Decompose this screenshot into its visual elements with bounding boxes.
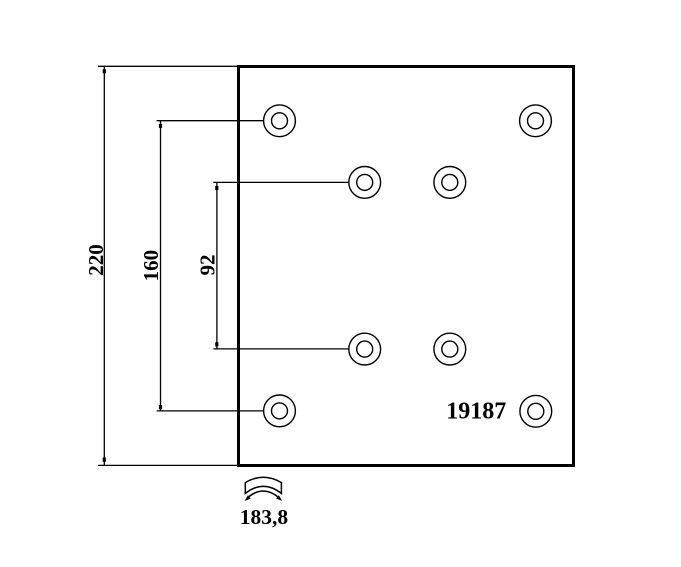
- hole H8 bottom-right: [520, 395, 552, 427]
- dimension 160 leader bottom (to hole H7): [157, 410, 264, 412]
- arc-length symbol arrowhead left: [245, 495, 251, 501]
- arc-length symbol band (lining cross-section): [245, 477, 281, 493]
- dimension 220 arrow top: [103, 69, 106, 73]
- dimension 160 line: [160, 121, 162, 411]
- hole H5 lower-middle-left: [349, 333, 381, 365]
- dimension 92 line: [216, 182, 218, 349]
- dimension 220 arrow bottom: [103, 458, 106, 462]
- dimension 160 leader top (to hole H1): [157, 120, 264, 122]
- hole H2 top-right: [520, 105, 552, 137]
- svg-text:220: 220: [84, 244, 108, 276]
- dimension 92 leader bottom (to hole H5): [213, 348, 348, 350]
- dimension 160 arrow top: [159, 124, 162, 128]
- brake lining plate outline: [239, 67, 574, 466]
- dimension 160 arrow bottom: [159, 405, 162, 409]
- svg-text:92: 92: [196, 255, 220, 276]
- hole H6 lower-middle-right: [434, 333, 466, 365]
- svg-text:183,8: 183,8: [240, 505, 289, 529]
- svg-text:160: 160: [139, 250, 163, 282]
- dimension 220 line: [103, 66, 105, 465]
- dimension 92 leader top (to hole H3): [213, 181, 348, 183]
- dimension 92 arrow top: [215, 186, 218, 190]
- hole H3 upper-middle-left: [349, 167, 381, 199]
- hole H1 top-left: [264, 105, 296, 137]
- svg-text:19187: 19187: [446, 399, 506, 425]
- dimension 220 extension line bottom: [98, 464, 237, 466]
- dimension 220 extension line top: [98, 65, 237, 67]
- hole H7 bottom-left: [264, 395, 296, 427]
- arc-length symbol curved arrow line: [247, 491, 280, 498]
- dimension 92 arrow bottom: [215, 342, 218, 346]
- arc-length symbol arrowhead right: [276, 495, 282, 501]
- hole H4 upper-middle-right: [434, 167, 466, 199]
